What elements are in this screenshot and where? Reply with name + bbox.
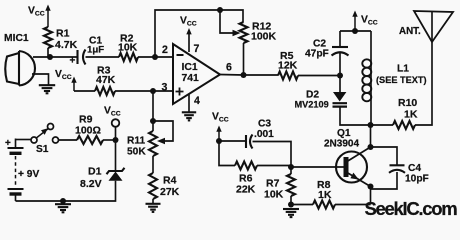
wire: R3 to op-amp pin 3 <box>115 90 173 92</box>
ground (R7) <box>283 208 299 210</box>
svg-text:+: + <box>5 138 11 149</box>
resistor R6 <box>235 162 257 170</box>
resistor R8 <box>313 201 335 209</box>
wire: mic output to C1 <box>33 56 77 58</box>
switch S1 <box>16 124 59 144</box>
svg-text:1K: 1K <box>318 189 332 201</box>
wire: R6 to base node <box>257 165 291 167</box>
wire: C1 to R2 <box>86 56 120 58</box>
wire: feedback loop pin2 up over to R12 <box>155 10 243 57</box>
svg-text:+: + <box>70 56 76 67</box>
node: R7 bottom junction <box>288 202 294 208</box>
wire: R11 to R4 <box>152 156 154 173</box>
wire: R5 to varactor node <box>298 75 340 77</box>
svg-text:100K: 100K <box>251 31 277 43</box>
ground (supply rail) <box>55 203 71 205</box>
svg-text:IC1: IC1 <box>182 62 198 73</box>
Vcc symbol (bias node) <box>218 130 220 142</box>
svg-text:R11: R11 <box>127 136 145 147</box>
svg-text:VCC: VCC <box>180 16 197 28</box>
resistor R10 <box>393 121 415 129</box>
svg-text:27K: 27K <box>160 186 180 198</box>
wire: collector node over to C4 <box>371 147 398 165</box>
capacitor C4 <box>389 165 405 173</box>
op-amp minus input marker <box>177 54 184 56</box>
node: R11 top junction <box>150 118 156 124</box>
varactor diode D2 MV2109 <box>333 92 348 107</box>
ground (R4) <box>146 203 161 205</box>
wire: R12 wiper stub <box>220 10 233 33</box>
svg-text:VCC: VCC <box>361 15 378 27</box>
antenna ANT <box>414 11 453 42</box>
wire: R11 wiper loop <box>153 121 173 141</box>
inductor L1 <box>362 59 371 101</box>
svg-text:2N3904: 2N3904 <box>324 139 359 150</box>
wire: D1 to bottom rail <box>16 181 116 201</box>
wire: pin 7 to Vcc <box>188 33 190 53</box>
wire: node down to D1 <box>115 140 117 170</box>
wire: R9 to Vcc terminal node <box>103 139 116 141</box>
svg-text:MIC1: MIC1 <box>4 33 29 44</box>
node: Vcc/C3/R6 junction <box>216 138 222 144</box>
svg-text:10pF: 10pF <box>405 174 429 185</box>
wire: tank bottom to collector node <box>370 125 372 147</box>
wiper arrow of R11 <box>157 138 165 144</box>
node: R5/C2/D2 junction <box>337 73 343 79</box>
wire: pin3 node down to R11 <box>152 91 154 131</box>
svg-text:1K: 1K <box>404 109 418 121</box>
svg-text:50K: 50K <box>127 147 146 158</box>
svg-text:6: 6 <box>226 62 232 74</box>
potentiometer R12 <box>240 22 248 43</box>
svg-text:Q1: Q1 <box>337 128 351 139</box>
svg-text:22K: 22K <box>236 184 256 196</box>
svg-text:+ 9V: + 9V <box>18 169 39 180</box>
svg-text:.001: .001 <box>254 129 274 140</box>
Vcc symbol (pin 7) <box>186 28 191 34</box>
wire: R10 to antenna <box>415 42 432 125</box>
svg-text:47K: 47K <box>96 74 116 86</box>
node: tank top Vcc junction <box>352 28 358 34</box>
Vcc terminal (open circle) <box>112 119 120 140</box>
transistor Q1 2N3904 <box>336 147 371 187</box>
node: rail/ground junction <box>60 198 66 204</box>
svg-text:VCC: VCC <box>104 106 121 118</box>
capacitor C2 <box>332 47 349 56</box>
svg-text:741: 741 <box>182 73 200 84</box>
wire: C2/D2 branch vertical <box>340 31 371 125</box>
svg-text:C3: C3 <box>258 119 271 130</box>
svg-text:(SEE TEXT): (SEE TEXT) <box>376 75 427 85</box>
node: pin2/feedback junction <box>152 54 158 60</box>
svg-text:S1: S1 <box>36 144 49 155</box>
node: mic/R1/C1 junction <box>47 54 53 60</box>
svg-text:MV2109: MV2109 <box>295 100 329 110</box>
wire: S1 to R9 <box>59 139 78 141</box>
wire: mic lower stub to ground <box>32 74 49 85</box>
battery B1 9V <box>8 139 24 202</box>
resistor R7 <box>290 167 292 174</box>
resistor R2 <box>119 53 138 61</box>
resistor R3 <box>95 87 115 95</box>
svg-text:10K: 10K <box>264 189 284 201</box>
wiper arrow of R12 <box>233 30 241 36</box>
capacitor C1 (polarized, + on left) <box>70 50 86 67</box>
node: feedback top junction <box>217 7 223 13</box>
svg-text:SeekIC.com: SeekIC.com <box>365 198 458 219</box>
svg-text:R10: R10 <box>398 97 417 109</box>
microphone MIC1 <box>5 51 35 86</box>
wire: inductor branch <box>370 31 372 125</box>
wire: C4 bottom to emitter node <box>371 172 398 189</box>
wire: C3 to base node <box>253 142 292 168</box>
resistor R1 <box>44 27 52 48</box>
wire: bottom rail to R8 <box>291 204 313 206</box>
zener diode D1 8.2V <box>107 168 125 181</box>
node: R9/D1/Vcc junction <box>113 137 119 143</box>
Vcc symbol (tank) <box>354 15 356 32</box>
node: output/R12 junction <box>241 72 247 78</box>
svg-text:2: 2 <box>162 44 168 56</box>
svg-text:R4: R4 <box>163 175 177 187</box>
svg-text:1μF: 1μF <box>87 45 104 56</box>
wire: tank top rail <box>340 30 371 32</box>
wire: R2 to op-amp pin 2 <box>138 56 173 58</box>
node: tank bottom junction <box>368 122 374 128</box>
wire: tank to R10 <box>371 124 394 126</box>
svg-text:4.7K: 4.7K <box>55 39 78 51</box>
svg-text:4: 4 <box>194 95 200 107</box>
resistor R4 <box>149 173 157 199</box>
svg-text:100Ω: 100Ω <box>75 125 101 137</box>
resistor R5 <box>278 72 298 80</box>
svg-text:8.2V: 8.2V <box>80 178 102 190</box>
svg-text:10K: 10K <box>118 42 138 54</box>
resistor R9 <box>77 136 103 144</box>
wire: emitter down to bottom rail <box>370 187 372 205</box>
svg-text:47pF: 47pF <box>305 49 329 60</box>
capacitor C3 <box>246 135 253 149</box>
Vcc symbol (R1 top) <box>47 9 49 28</box>
wire: R8 to emitter rail <box>335 204 371 206</box>
wire: Vcc node to C3 <box>219 140 246 142</box>
wire: R4 to ground <box>152 199 154 204</box>
svg-text:7: 7 <box>194 43 200 55</box>
potentiometer R11 <box>149 131 157 156</box>
ground (microphone) <box>39 84 55 86</box>
node: base junction C3/R6/R7 <box>288 164 294 170</box>
wire: base node to Q1 base <box>291 166 344 168</box>
node: emitter/C4 junction <box>368 184 374 190</box>
node: collector/C4 junction <box>368 144 374 150</box>
svg-text:D1: D1 <box>88 166 102 178</box>
wire: op-amp output to R5 <box>220 74 278 77</box>
op-amp U1 (IC1 741) <box>173 44 220 104</box>
svg-text:C4: C4 <box>408 163 421 174</box>
svg-text:R1: R1 <box>56 28 70 40</box>
ground (op-amp pin 4) <box>182 111 196 113</box>
node: pin3 junction <box>150 88 156 94</box>
svg-text:VCC: VCC <box>55 69 72 81</box>
svg-text:ANT.: ANT. <box>399 26 421 37</box>
wire: pin 4 to ground <box>188 94 190 112</box>
svg-text:VCC: VCC <box>28 6 45 18</box>
svg-text:L1: L1 <box>397 64 409 75</box>
wire: Vcc corner to R3 <box>74 90 95 92</box>
svg-text:12K: 12K <box>278 60 298 72</box>
svg-text:VCC: VCC <box>212 112 229 124</box>
Vcc symbol (R3 bias) <box>73 81 75 92</box>
wire: Vcc node down to R6 <box>219 141 235 166</box>
op-amp plus input marker <box>176 88 184 96</box>
